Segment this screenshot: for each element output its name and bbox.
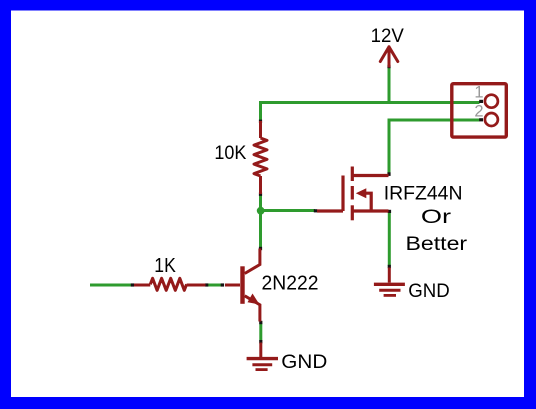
svg-text:1: 1 <box>474 84 483 102</box>
wire pin2 to drain <box>389 120 480 173</box>
wire 12V rail horizontal <box>261 103 480 122</box>
svg-text:1K: 1K <box>154 255 176 277</box>
body arrow Q2 <box>356 188 367 198</box>
ground right <box>374 268 405 296</box>
connector J1 <box>452 84 507 137</box>
svg-text:2: 2 <box>474 103 483 121</box>
svg-text:Better: Better <box>406 233 468 255</box>
power flag 12V arrow <box>380 47 398 66</box>
emitter arrow Q1 <box>248 294 260 305</box>
wire emitter to ground <box>259 324 262 341</box>
wire 10K bottom to node <box>259 194 262 211</box>
svg-text:IRFZ44N: IRFZ44N <box>384 183 463 205</box>
node junction dot <box>257 207 265 215</box>
svg-text:10K: 10K <box>214 143 246 164</box>
ground left <box>247 343 278 370</box>
mosfet Q2 IRFZ44N <box>317 167 389 221</box>
resistor R2 1K <box>134 278 206 290</box>
svg-text:12V: 12V <box>371 25 404 47</box>
transistor Q1 2N222 <box>225 249 260 322</box>
pad 1 <box>485 95 498 108</box>
wire 12V arrow drop <box>388 67 391 103</box>
wire node to gate <box>261 209 316 212</box>
wire R2 to base <box>208 284 222 287</box>
wire input to R2 <box>90 284 132 287</box>
svg-text:Or: Or <box>421 207 452 228</box>
pin tick marks <box>131 65 483 344</box>
wire node to collector <box>259 211 262 249</box>
pad 2 <box>485 113 498 126</box>
wire source to ground <box>388 213 391 266</box>
resistor R1 10K <box>254 121 267 194</box>
svg-text:GND: GND <box>408 281 450 302</box>
svg-text:GND: GND <box>281 351 327 373</box>
svg-text:2N222: 2N222 <box>262 272 319 295</box>
